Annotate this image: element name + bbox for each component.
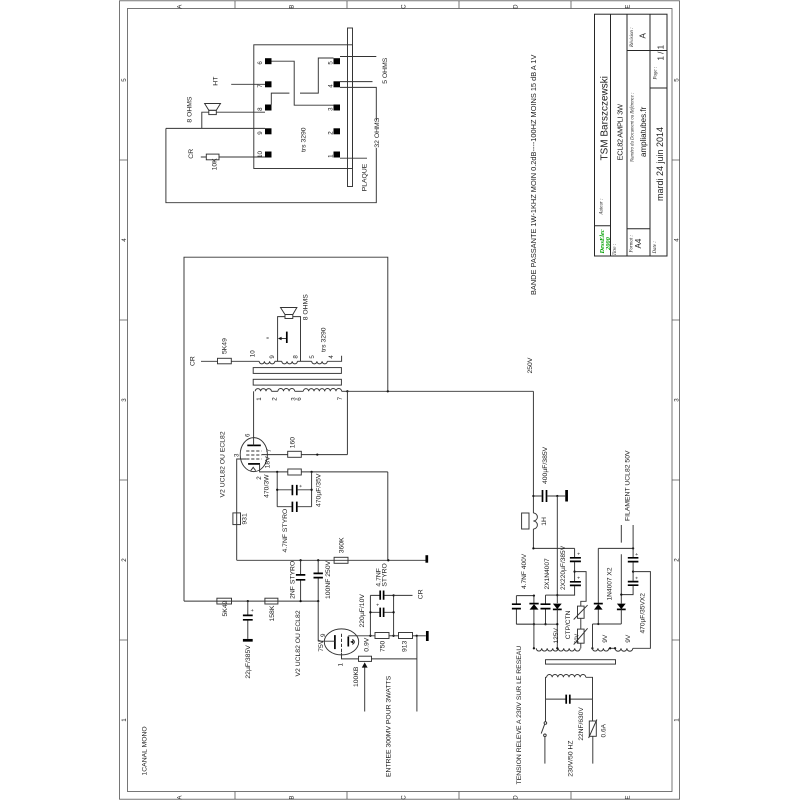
svg-text:470/3W: 470/3W <box>264 474 271 498</box>
svg-text:PLAQUE: PLAQUE <box>361 163 368 191</box>
diode D1 (up) <box>533 596 535 625</box>
svg-text:360K: 360K <box>338 537 345 553</box>
cathode bypass left column <box>276 472 278 507</box>
border zone ticks left <box>120 160 128 640</box>
wire pin5 to pin8 (with crossover gap) <box>271 58 333 105</box>
wire measurement loop left/bottom <box>166 128 376 202</box>
svg-text:3: 3 <box>233 453 240 457</box>
cathode bypass columns <box>370 595 393 635</box>
grid1 lead pin 3 <box>237 459 247 560</box>
capacitor 220uF/10V <box>370 611 393 613</box>
svg-text:A4: A4 <box>634 238 643 248</box>
capacitor 400uF/385V <box>533 495 565 497</box>
svg-text:250V: 250V <box>527 357 534 373</box>
svg-text:TENSION RELEVE A 230V SUR LE R: TENSION RELEVE A 230V SUR LE RESEAU <box>516 646 523 785</box>
wire pin9 line <box>166 127 265 129</box>
svg-text:C: C <box>401 795 408 800</box>
terminal bar right of node line <box>425 555 428 563</box>
svg-text:50V: 50V <box>575 634 581 644</box>
triode plate lead pin 9 <box>318 601 335 641</box>
svg-text:5: 5 <box>327 61 334 65</box>
transformer core bars <box>253 368 341 374</box>
filament terminal stub <box>632 525 634 548</box>
feedback rect top left rail <box>184 257 388 601</box>
svg-text:10: 10 <box>250 350 257 357</box>
svg-text:5K49: 5K49 <box>222 600 229 616</box>
svg-text:B: B <box>289 5 296 9</box>
filter top line <box>533 547 574 549</box>
output transformer secondary winding <box>259 361 275 364</box>
CR feedback stub <box>394 594 413 596</box>
resistor 160 <box>288 451 302 457</box>
choke 1H <box>533 513 537 529</box>
svg-text:2X220µF/385V: 2X220µF/385V <box>560 545 567 590</box>
svg-text:22NF/630V: 22NF/630V <box>578 707 585 741</box>
svg-text:4: 4 <box>328 355 335 359</box>
svg-text:6: 6 <box>296 397 303 401</box>
svg-text:1 / 1: 1 / 1 <box>657 44 666 60</box>
negative rail <box>556 496 558 603</box>
svg-text:5: 5 <box>121 78 128 82</box>
svg-text:2000: 2000 <box>605 236 612 251</box>
svg-text:2NF STYRO: 2NF STYRO <box>290 561 297 599</box>
tube V2 pentode envelope <box>240 438 267 472</box>
pot wiper arrow <box>364 667 366 712</box>
svg-text:7: 7 <box>337 396 344 400</box>
svg-text:V2 UCL82 OU ECL82: V2 UCL82 OU ECL82 <box>220 431 227 497</box>
wire cathode row to HT rail <box>301 472 388 560</box>
svg-text:470µF/35VX2: 470µF/35VX2 <box>639 593 646 634</box>
svg-text:+: + <box>576 576 582 579</box>
svg-text:4: 4 <box>674 238 681 242</box>
svg-text:trs 3290: trs 3290 <box>321 327 328 352</box>
cathode lead pin 2 <box>260 464 288 472</box>
B+ line to 250V <box>347 390 533 392</box>
svg-text:V2 UCL82 OU ECL82: V2 UCL82 OU ECL82 <box>295 610 302 676</box>
resistor 913 <box>399 633 413 639</box>
mains core bar <box>546 660 616 664</box>
triode anode plate <box>334 635 336 649</box>
svg-text:Auteur :: Auteur : <box>600 198 605 216</box>
triode grid (dashed) <box>341 634 343 653</box>
wire HT to pin7 <box>231 83 265 85</box>
svg-text:Titre :: Titre : <box>613 243 618 255</box>
svg-text:9: 9 <box>269 355 276 359</box>
loop to 9V winding right end <box>633 572 651 649</box>
transformer wiring box trs 3290 <box>254 45 353 169</box>
svg-text:750: 750 <box>380 640 387 652</box>
wire tap8 to speaker <box>293 317 301 362</box>
svg-text:2: 2 <box>256 476 263 480</box>
svg-text:BANDE PASSANTE 1W-1KHZ MOIN 0.: BANDE PASSANTE 1W-1KHZ MOIN 0.2dB----100… <box>529 55 538 295</box>
bottom bridge line <box>516 623 557 625</box>
border zone ticks right <box>672 160 680 640</box>
pentode cathode <box>248 463 260 465</box>
svg-text:Page :: Page : <box>654 66 659 80</box>
pentode heater chevron <box>251 467 256 470</box>
pins 5 4 3 2 1 (right pads) <box>334 58 341 64</box>
svg-text:+: + <box>635 576 641 579</box>
svg-text:400µF/385V: 400µF/385V <box>542 446 549 484</box>
svg-text:5: 5 <box>309 355 316 359</box>
triode cathode <box>347 637 349 647</box>
svg-text:Numéro du Document ou Référenc: Numéro du Document ou Référence : <box>631 92 636 163</box>
svg-text:E: E <box>625 5 632 9</box>
secondary 9V winding right <box>615 648 633 651</box>
svg-text:1: 1 <box>674 718 681 722</box>
diode D2 (down) <box>553 604 562 610</box>
svg-text:22µF/385V: 22µF/385V <box>245 645 252 679</box>
svg-text:5: 5 <box>674 78 681 82</box>
transformer mounting bar <box>348 28 353 187</box>
wire pin1 plaque stub <box>340 157 367 159</box>
svg-text:1H: 1H <box>541 517 548 526</box>
svg-text:C: C <box>401 4 408 9</box>
svg-text:ampliatubes.fr: ampliatubes.fr <box>639 106 648 157</box>
svg-text:5K49: 5K49 <box>221 338 228 354</box>
triode grid lead pin 1 <box>342 653 359 659</box>
svg-text:B: B <box>289 795 296 799</box>
svg-text:1: 1 <box>337 663 344 667</box>
svg-text:10K: 10K <box>212 158 219 171</box>
bottom link both diodes <box>593 624 622 648</box>
capacitor probe mark on tap9 wire <box>286 332 288 343</box>
border zone ticks bottom <box>235 792 571 800</box>
capacitor 2X220uF/385V upper <box>574 548 576 557</box>
svg-text:ENTREE 300MV POUR 3WATTS: ENTREE 300MV POUR 3WATTS <box>386 675 393 777</box>
capacitor 2X220uF/385V lower <box>570 582 581 586</box>
border zone ticks top <box>235 1 571 9</box>
svg-text:Date :: Date : <box>653 241 658 255</box>
potentiometer 100KB <box>359 656 372 661</box>
svg-text:3: 3 <box>121 398 128 402</box>
svg-text:D: D <box>513 4 520 9</box>
diode D3 (up) <box>597 548 599 624</box>
resistor 158K <box>265 598 278 604</box>
resistor 931 (grid leak) <box>233 513 241 525</box>
resistor 5K49 (lower) <box>217 598 232 604</box>
svg-text:75V: 75V <box>318 639 325 652</box>
resistor 470/3W cathode <box>288 469 302 475</box>
border frame inner <box>128 9 673 792</box>
svg-text:2: 2 <box>121 558 128 562</box>
title block grid <box>595 14 668 256</box>
filament line <box>598 547 633 549</box>
thermistor CTN <box>580 618 582 629</box>
svg-text:8 OHMS: 8 OHMS <box>303 294 310 321</box>
svg-text:ECL82 AMPLI 3W: ECL82 AMPLI 3W <box>616 103 625 160</box>
capacitor 22NF/630V across mains <box>546 698 593 700</box>
svg-text:230V/50 HZ: 230V/50 HZ <box>567 740 574 776</box>
svg-text:18V: 18V <box>265 456 272 469</box>
ground terminal bar 400uF <box>565 490 568 502</box>
D4 anode riser with crossover gap <box>620 525 622 604</box>
svg-text:4: 4 <box>121 238 128 242</box>
diode D4 (down) <box>617 604 626 610</box>
capacitor 22uF/385V <box>247 601 249 639</box>
svg-text:CTP/CTN: CTP/CTN <box>565 610 572 639</box>
svg-text:+: + <box>375 603 381 606</box>
svg-text:+: + <box>250 609 256 612</box>
capacitor 100NF 250V <box>317 560 319 601</box>
svg-text:trs 3290: trs 3290 <box>301 127 308 152</box>
capacitor 470uF/35V <box>277 489 311 491</box>
svg-text:+: + <box>635 553 641 556</box>
primary left lead <box>546 677 547 699</box>
svg-text:3: 3 <box>327 107 334 111</box>
B+ rail down <box>532 391 534 513</box>
tube V2 triode envelope <box>324 629 358 655</box>
terminal bar cathode row <box>426 631 429 641</box>
screen lead pin 7 to resistor 160 <box>262 454 288 456</box>
svg-text:5 OHMS: 5 OHMS <box>382 57 389 84</box>
svg-text:CR: CR <box>190 356 197 366</box>
output transformer primary winding <box>255 389 271 392</box>
svg-text:8: 8 <box>257 107 264 111</box>
svg-text:A: A <box>639 33 648 39</box>
svg-text:6: 6 <box>245 433 252 437</box>
triode cathode lead row <box>348 635 375 637</box>
svg-text:3: 3 <box>674 398 681 402</box>
svg-text:9V: 9V <box>625 634 632 643</box>
svg-text:4.7NF STYRO: 4.7NF STYRO <box>282 509 289 553</box>
svg-text:mardi 24 juin 2014: mardi 24 juin 2014 <box>655 127 665 201</box>
speaker 8 OHMS (main) <box>285 315 293 319</box>
svg-text:158K: 158K <box>269 605 276 621</box>
svg-text:32 OHMS: 32 OHMS <box>374 117 381 147</box>
svg-text:1: 1 <box>256 397 263 401</box>
capacitor 4.7NF 400V <box>516 596 534 625</box>
pentode grids (dashed) <box>246 451 261 459</box>
svg-text:913: 913 <box>402 640 409 652</box>
speaker 8 OHMS (block) <box>209 110 217 114</box>
svg-text:220µF/10V: 220µF/10V <box>359 594 366 628</box>
svg-text:STYRO: STYRO <box>382 563 389 586</box>
svg-text:470µF/35V: 470µF/35V <box>316 473 323 507</box>
pot right wire to input <box>372 636 417 712</box>
svg-text:HT: HT <box>213 77 220 86</box>
wire pin5 stub <box>340 56 376 58</box>
svg-text:100NF 250V: 100NF 250V <box>325 560 332 599</box>
wire 32 OHMS upper segment to pin4 <box>340 87 376 120</box>
thermistor CTP <box>578 606 585 618</box>
capacitor between diodes <box>545 595 547 624</box>
pentode plate lead to primary tap 1 <box>253 391 255 445</box>
wire pin6 to pin3 <box>272 61 334 105</box>
primary 230V winding <box>547 675 586 678</box>
svg-text:0.6A: 0.6A <box>601 723 608 737</box>
pentode anode plate <box>247 444 260 446</box>
svg-text:160: 160 <box>290 437 297 449</box>
svg-text:Révision :: Révision : <box>630 27 635 48</box>
svg-text:2: 2 <box>674 558 681 562</box>
svg-text:+: + <box>576 552 582 555</box>
svg-text:1N4007 X2: 1N4007 X2 <box>606 567 613 600</box>
branch to CTP/CTN <box>575 572 587 607</box>
svg-text:9: 9 <box>257 131 264 135</box>
resistor 360K <box>334 557 348 563</box>
capacitor 470uF/35V lower (filament) <box>628 582 639 586</box>
wire pin4 stub <box>340 81 373 83</box>
svg-text:D: D <box>513 795 520 800</box>
svg-text:TSM Barszczewski: TSM Barszczewski <box>600 76 611 160</box>
svg-text:8: 8 <box>293 355 300 359</box>
svg-text:1CANAL MONO: 1CANAL MONO <box>141 726 148 775</box>
wire speaker left drop <box>202 112 209 128</box>
svg-text:0.9V: 0.9V <box>364 637 371 651</box>
svg-text:931: 931 <box>241 513 248 525</box>
resistor 750 <box>375 633 389 639</box>
svg-text:2: 2 <box>272 397 279 401</box>
svg-text:E: E <box>625 795 632 799</box>
primary right lead <box>586 677 593 699</box>
svg-text:CR: CR <box>188 149 195 159</box>
cathode bypass right column <box>311 472 313 507</box>
wire CR to secondary tap 10 <box>201 360 259 362</box>
svg-text:9V: 9V <box>602 634 609 643</box>
svg-text:CR: CR <box>418 589 425 599</box>
svg-text:7: 7 <box>266 448 273 452</box>
border frame outer <box>120 1 680 799</box>
svg-text:125V: 125V <box>553 627 560 643</box>
resistor 10K <box>206 154 219 160</box>
pins 6 7 8 9 10 (left pads) <box>265 58 272 64</box>
ground terminal bar 22uF <box>243 639 253 642</box>
svg-text:2: 2 <box>327 131 334 135</box>
capacitor 2NF STYRO <box>300 560 302 601</box>
fuse 0.6A <box>592 699 594 721</box>
svg-text:4.7NF 400V: 4.7NF 400V <box>521 553 528 589</box>
svg-text:100KB: 100KB <box>353 666 360 687</box>
wire tap9 to speaker <box>278 317 285 362</box>
capacitor 4.7NF STYRO (pentode) <box>277 506 311 508</box>
wire 160 to tap7 column <box>301 391 347 454</box>
svg-text:6: 6 <box>257 61 264 65</box>
svg-text:2X1N4007: 2X1N4007 <box>544 558 551 589</box>
secondary 9V winding left <box>592 648 609 651</box>
wire speaker to pin8 <box>216 111 265 113</box>
secondary 125V winding <box>536 648 580 651</box>
junction dot tap7 <box>346 390 348 392</box>
svg-text:FILAMENT UCL82 50V: FILAMENT UCL82 50V <box>625 450 632 521</box>
resistor 5K49 (secondary) <box>218 358 232 364</box>
capacitor 470uF/35V upper (filament) <box>632 548 634 557</box>
capacitor 4.7NF STYRO (triode) <box>370 594 393 596</box>
svg-text:1: 1 <box>121 718 128 722</box>
svg-text:8 OHMS: 8 OHMS <box>187 96 194 123</box>
svg-text:9: 9 <box>320 633 327 637</box>
mains switch <box>545 699 547 722</box>
lower node line <box>184 600 318 602</box>
long node line <box>237 559 426 561</box>
svg-text:+: + <box>299 485 305 488</box>
rail to mains winding <box>533 624 535 648</box>
svg-text:1: 1 <box>327 154 334 158</box>
svg-text:4: 4 <box>327 84 334 88</box>
